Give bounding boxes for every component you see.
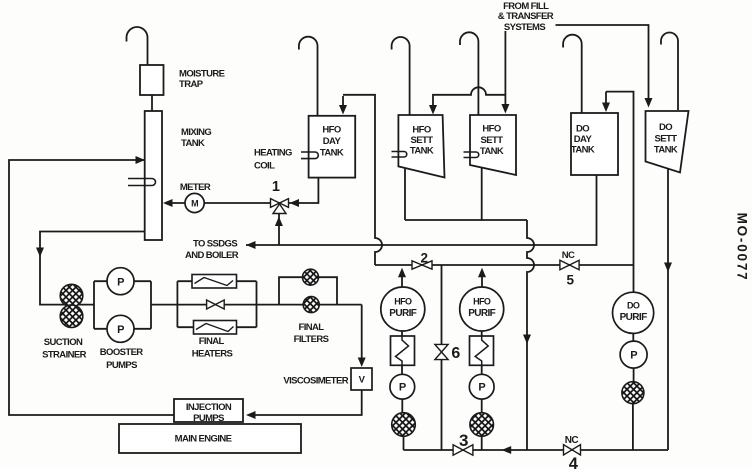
svg-text:VISCOSIMETER: VISCOSIMETER bbox=[283, 376, 348, 387]
svg-text:PUMPS: PUMPS bbox=[106, 360, 137, 371]
svg-text:1: 1 bbox=[272, 179, 280, 195]
svg-text:HFO: HFO bbox=[394, 297, 412, 307]
svg-text:DO: DO bbox=[659, 122, 672, 133]
svg-text:5: 5 bbox=[567, 273, 575, 288]
svg-text:SETT: SETT bbox=[411, 135, 434, 146]
svg-text:HEATERS: HEATERS bbox=[192, 349, 233, 360]
svg-text:6: 6 bbox=[451, 345, 460, 362]
svg-text:NC: NC bbox=[565, 435, 579, 446]
svg-text:SYSTEMS: SYSTEMS bbox=[504, 22, 545, 33]
svg-text:DAY: DAY bbox=[574, 134, 593, 145]
svg-text:FILTERS: FILTERS bbox=[294, 334, 329, 345]
svg-text:METER: METER bbox=[180, 182, 211, 193]
svg-text:HFO: HFO bbox=[412, 124, 430, 135]
svg-text:TANK: TANK bbox=[410, 146, 434, 157]
svg-text:FINAL: FINAL bbox=[199, 336, 225, 347]
svg-text:SETT: SETT bbox=[481, 135, 504, 146]
svg-text:PURIF: PURIF bbox=[389, 308, 416, 319]
svg-text:FROM FILL: FROM FILL bbox=[503, 1, 549, 12]
svg-text:P: P bbox=[117, 324, 124, 336]
svg-text:MO-0077: MO-0077 bbox=[735, 213, 750, 282]
svg-text:INJECTION: INJECTION bbox=[186, 402, 232, 413]
svg-text:TANK: TANK bbox=[320, 147, 344, 158]
svg-text:HFO: HFO bbox=[482, 123, 500, 134]
svg-text:STRAINER: STRAINER bbox=[42, 350, 86, 361]
svg-text:HFO: HFO bbox=[473, 297, 491, 307]
svg-text:TANK: TANK bbox=[480, 146, 504, 157]
svg-text:SUCTION: SUCTION bbox=[44, 337, 83, 348]
svg-text:MAIN ENGINE: MAIN ENGINE bbox=[175, 434, 232, 445]
svg-text:PURIF: PURIF bbox=[620, 312, 647, 323]
svg-text:TANK: TANK bbox=[181, 138, 205, 149]
svg-text:P: P bbox=[630, 350, 637, 362]
svg-text:SETT: SETT bbox=[655, 133, 678, 144]
svg-text:P: P bbox=[399, 382, 406, 394]
svg-text:TANK: TANK bbox=[571, 145, 595, 156]
svg-text:PUMPS: PUMPS bbox=[193, 413, 224, 424]
svg-text:MIXING: MIXING bbox=[181, 127, 211, 138]
svg-text:TRAP: TRAP bbox=[179, 79, 204, 90]
svg-text:M: M bbox=[191, 199, 198, 209]
svg-text:FINAL: FINAL bbox=[299, 322, 325, 333]
svg-text:3: 3 bbox=[459, 431, 468, 450]
svg-text:P: P bbox=[478, 382, 485, 394]
svg-text:PURIF: PURIF bbox=[468, 308, 495, 319]
svg-text:4: 4 bbox=[569, 455, 579, 469]
svg-text:DO: DO bbox=[576, 123, 589, 134]
svg-text:AND BOILER: AND BOILER bbox=[185, 250, 239, 261]
svg-text:2: 2 bbox=[421, 251, 428, 266]
svg-text:TO SSDGS: TO SSDGS bbox=[193, 238, 237, 249]
svg-text:BOOSTER: BOOSTER bbox=[100, 347, 144, 358]
svg-text:& TRANSFER: & TRANSFER bbox=[498, 11, 554, 22]
svg-text:HFO: HFO bbox=[322, 125, 340, 136]
svg-text:COIL: COIL bbox=[254, 161, 275, 172]
svg-text:P: P bbox=[117, 276, 124, 288]
svg-text:HEATING: HEATING bbox=[254, 148, 292, 159]
svg-text:DO: DO bbox=[627, 301, 640, 311]
svg-text:TANK: TANK bbox=[654, 144, 678, 155]
svg-text:DAY: DAY bbox=[323, 136, 342, 147]
svg-text:NC: NC bbox=[562, 250, 575, 261]
